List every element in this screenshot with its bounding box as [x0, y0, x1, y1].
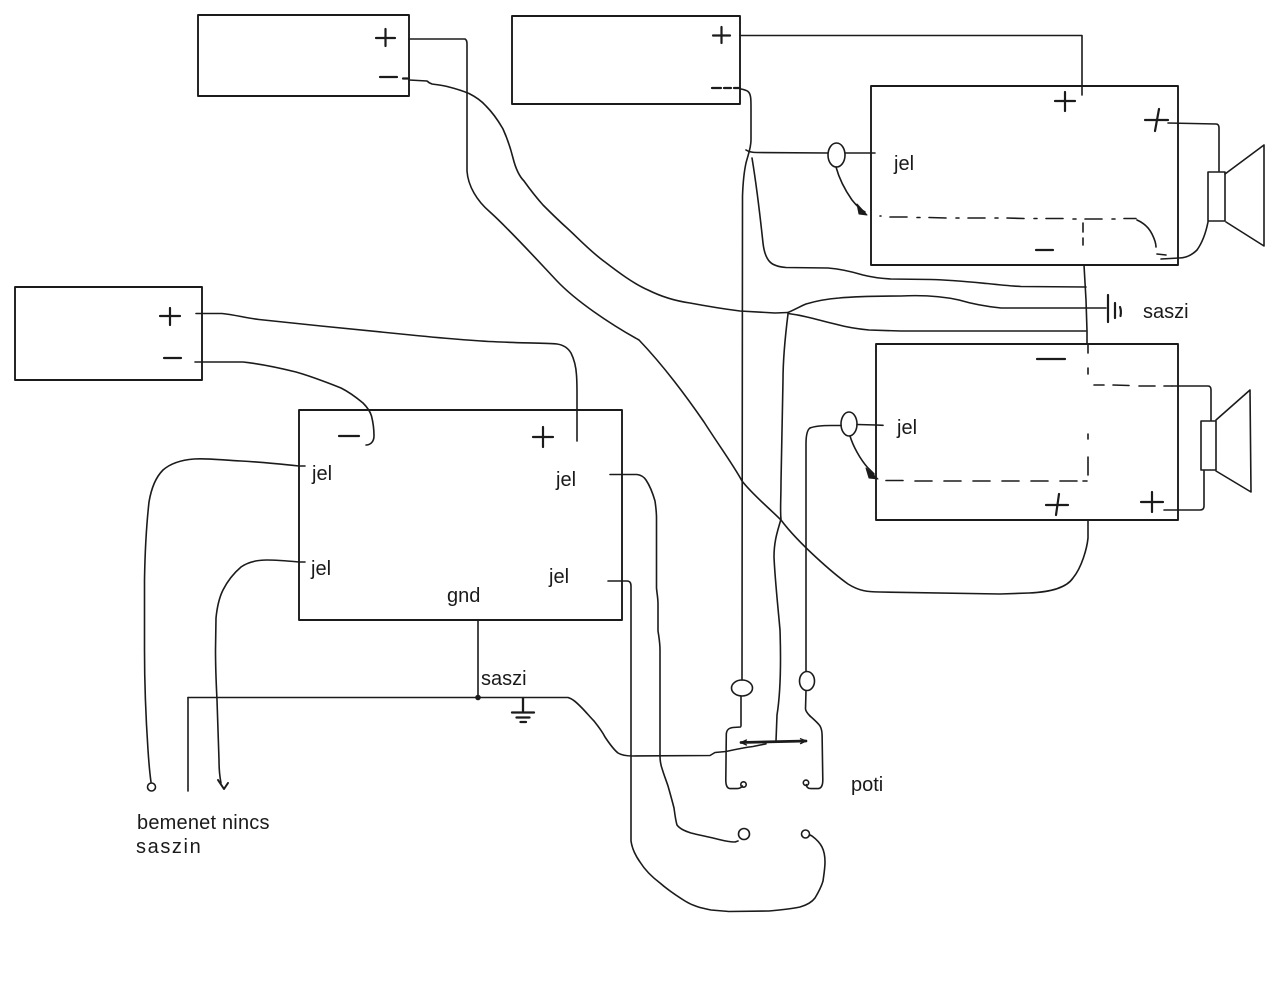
- wire U1 line1 from jel branch down and right to U2 vertical: [752, 158, 1086, 287]
- wire below right ellipse to poti: [806, 691, 811, 716]
- wire U2 plus to speaker SP2: [1164, 471, 1204, 510]
- wire ellipse to U1 edge: [845, 152, 875, 154]
- wire U2 to speaker SP2 top: [1172, 386, 1211, 420]
- speaker SP1 driver: [1208, 172, 1225, 221]
- B2 minus terminal: [712, 87, 740, 89]
- VR1 wiper bar: [741, 741, 806, 743]
- arrowhead at U1 dashed line start: [857, 204, 867, 215]
- amplifier U2 (right box): [876, 344, 1178, 520]
- wire B2 minus corner: [741, 89, 751, 680]
- ground symbol: [512, 698, 534, 722]
- B1 minus terminal: [380, 77, 409, 79]
- open circle pad right under poti: [802, 830, 810, 838]
- wire B1 minus to chassis node: [409, 80, 788, 313]
- battery B2 (top-middle box): [512, 16, 740, 104]
- squiggle from ellipse into U2: [850, 436, 874, 474]
- svg-text:saszi: saszi: [1143, 301, 1189, 323]
- junction ellipse on poti left lead: [732, 680, 753, 696]
- wire B2 plus to U1 top: [740, 36, 1082, 96]
- open circle end of top-left jel wire: [148, 783, 156, 791]
- wire U1 right plus to speaker SP1: [1168, 123, 1219, 171]
- svg-text:jel: jel: [896, 417, 917, 439]
- dashed vertical inside U1: [1082, 223, 1084, 245]
- dashed vertical inside U2: [1087, 345, 1089, 475]
- wire U1 bottom to U2 top vertical: [1084, 265, 1087, 344]
- wire SP1 return into U1: [1161, 222, 1208, 259]
- wire U2 top dashed link: [1094, 385, 1172, 386]
- wire U3 jel bottom-left input: [216, 560, 306, 783]
- B2 plus terminal: [713, 27, 730, 43]
- arrow end of bottom-left jel wire: [218, 780, 228, 789]
- arrowhead at U2 dashed line start: [866, 468, 878, 479]
- squiggle from ellipse into U1: [836, 167, 865, 212]
- VR1 right leg circle: [803, 780, 808, 785]
- speaker SP2 driver: [1201, 421, 1216, 470]
- svg-text:gnd: gnd: [447, 585, 480, 607]
- wire B3 minus to U3 minus: [195, 362, 374, 445]
- U3 minus mark: [339, 435, 359, 437]
- svg-text:bemenet nincs: bemenet nincs: [137, 812, 270, 834]
- speaker SP2 cone: [1216, 390, 1251, 492]
- dash-dot hook to speaker wire: [1137, 220, 1166, 255]
- VR1 wiper arrow left: [741, 740, 747, 745]
- wire U3 jel top-right output down to left pad: [610, 475, 738, 843]
- stub wire left of bus: [187, 698, 189, 792]
- wire branch to U1 jel input: [746, 150, 828, 153]
- wire junction down to poti wiper: [774, 314, 788, 741]
- speaker SP1 cone: [1225, 145, 1264, 246]
- open circle pad left under poti: [739, 829, 750, 840]
- potentiometer VR1 left bracket: [726, 727, 743, 789]
- wire poti right lead up to U2 jel: [806, 428, 810, 671]
- junction ellipse on U2 jel wire: [841, 412, 857, 436]
- wire junction to chassis: [788, 296, 1106, 313]
- wire B2 minus below junction ellipse to poti: [740, 696, 742, 726]
- battery B3 (left box): [15, 287, 202, 380]
- U1 plus supply mark: [1055, 92, 1075, 111]
- B3 minus terminal: [164, 357, 181, 359]
- svg-text:jel: jel: [548, 566, 569, 588]
- VR1 wiper arrow right: [801, 739, 807, 744]
- battery B1 (top-left box): [198, 15, 409, 96]
- VR1 left leg circle: [741, 782, 746, 787]
- junction ellipse on U1 jel wire: [828, 143, 845, 167]
- B3 plus terminal: [160, 308, 180, 325]
- svg-text:jel: jel: [311, 463, 332, 485]
- preamp U3 (middle box): [299, 410, 622, 620]
- junction dot at gnd node: [475, 695, 481, 701]
- U3 plus mark: [533, 427, 553, 447]
- U2 plus mark 1: [1046, 494, 1068, 515]
- wire U3 jel top-left output: [145, 459, 306, 782]
- svg-text:jel: jel: [893, 153, 914, 175]
- dash-dot line inside U1: [880, 216, 1136, 219]
- wire ellipse to U2 edge: [857, 424, 883, 427]
- U1 output plus mark: [1145, 109, 1168, 131]
- wire U2 jel lead left: [810, 426, 841, 429]
- svg-text:saszi: saszi: [481, 668, 527, 690]
- dashed line inside U2: [886, 480, 1087, 483]
- wire junction to U2 top vertical: [788, 314, 1086, 332]
- wire U3 jel bottom-right output down to right pad: [608, 581, 825, 912]
- wire B1 plus to U2 bottom: [409, 39, 1088, 594]
- U1 minus mark: [1036, 249, 1053, 251]
- wire B3 plus to U3 plus: [196, 314, 577, 442]
- amplifier U1 (top-right box): [871, 86, 1178, 265]
- svg-text:jel: jel: [310, 558, 331, 580]
- junction ellipse on poti right lead: [800, 672, 815, 691]
- long ground bus horizontal and S-curve to poti: [188, 698, 766, 757]
- svg-text:saszin: saszin: [136, 836, 202, 858]
- chassis symbol saszi: [1108, 295, 1121, 322]
- U2 plus mark 2: [1141, 492, 1163, 512]
- B1 plus terminal: [376, 29, 395, 46]
- wire U3 gnd down: [477, 620, 479, 697]
- svg-text:poti: poti: [851, 774, 883, 796]
- potentiometer VR1 right bracket: [806, 716, 822, 789]
- svg-text:jel: jel: [555, 469, 576, 491]
- U2 minus mark: [1037, 358, 1065, 360]
